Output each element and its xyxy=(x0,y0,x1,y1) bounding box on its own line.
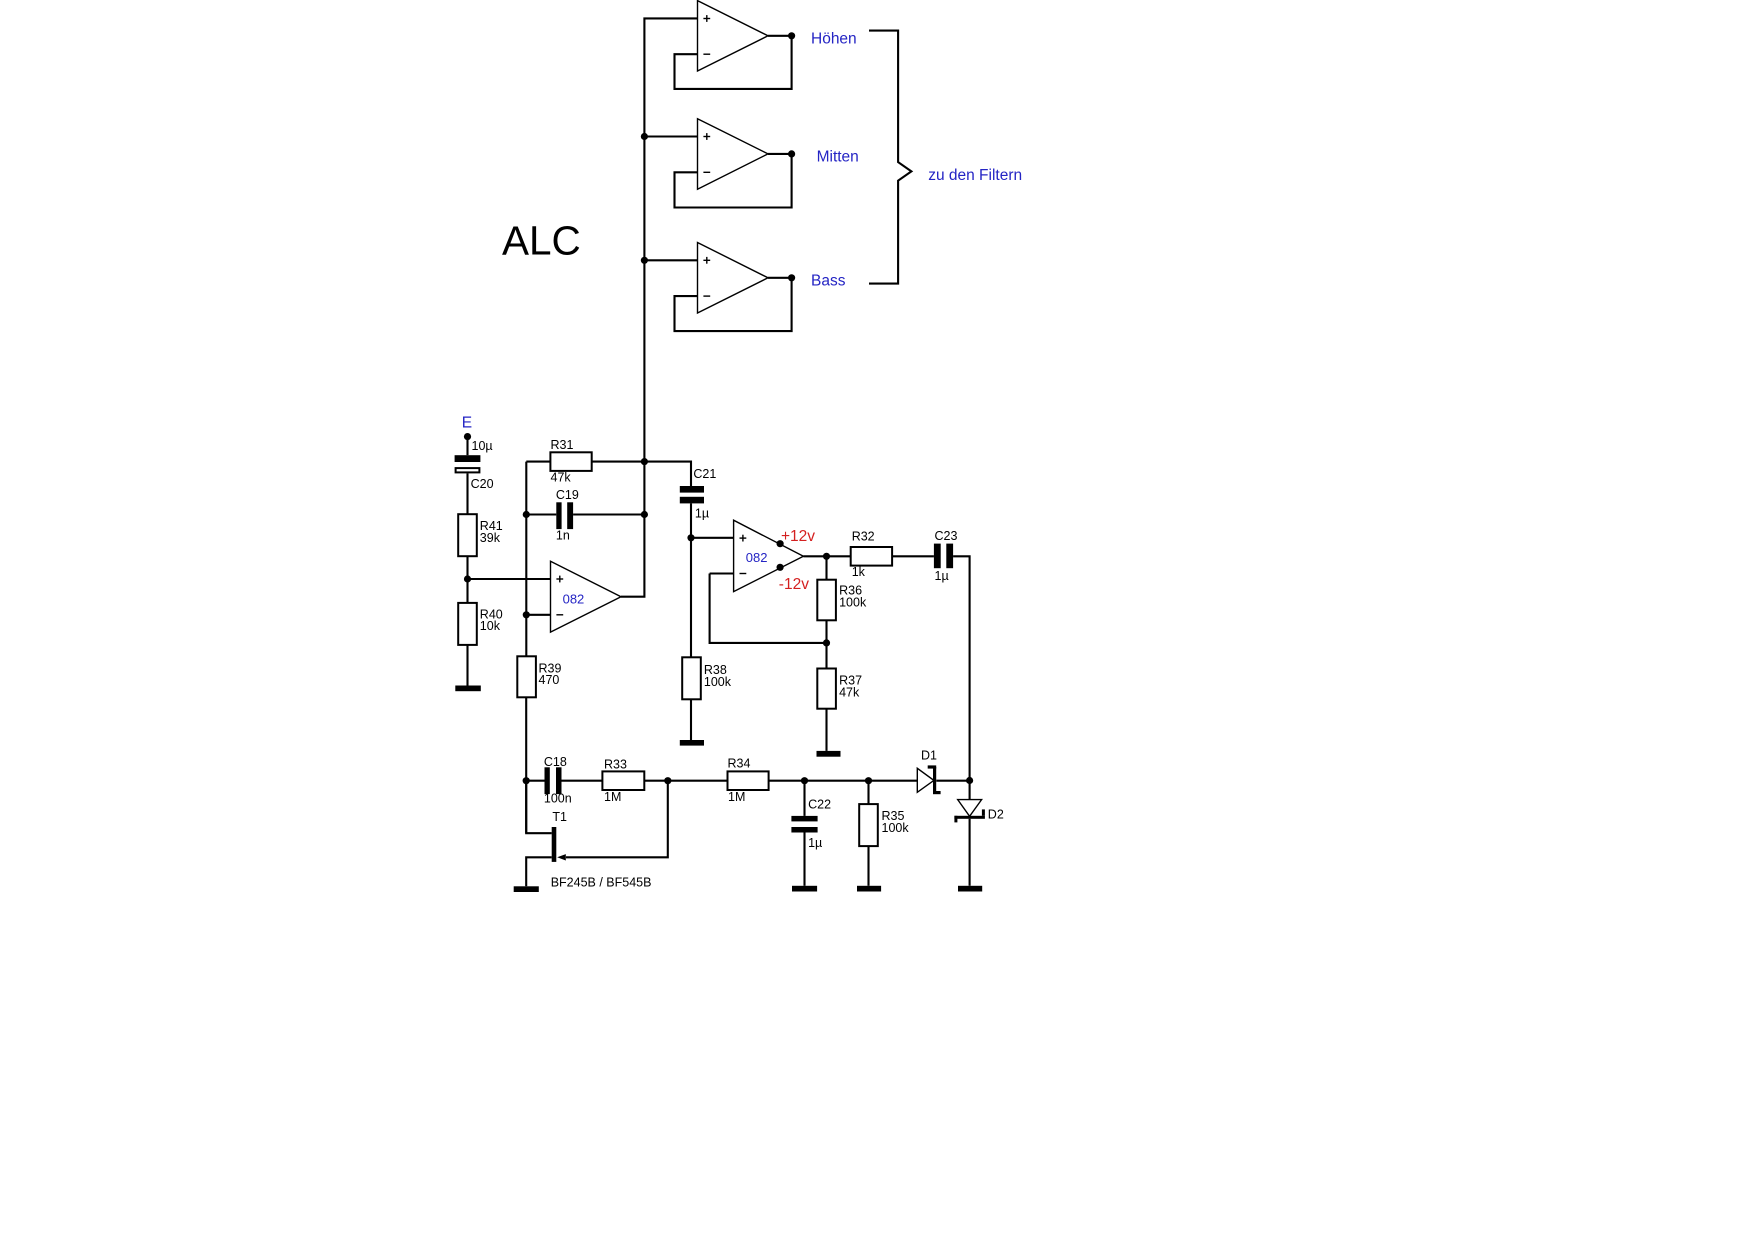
op-amp U4 (082 rectifier stage) xyxy=(734,520,804,591)
node: junction bus/R31/C21 xyxy=(641,458,648,465)
node: Hoehen output junction xyxy=(788,32,795,39)
node: junction on bus at Mitten tap xyxy=(641,133,648,140)
wire: C20 to R41 xyxy=(466,473,468,514)
svg-text:D2: D2 xyxy=(988,807,1004,821)
node: junction C22 xyxy=(801,777,808,784)
brace: outputs to filters xyxy=(869,31,911,284)
wire: U4 output xyxy=(803,555,826,557)
svg-text:R34: R34 xyxy=(728,757,751,771)
svg-text:C18: C18 xyxy=(544,755,567,769)
svg-text:1µ: 1µ xyxy=(808,836,822,850)
wire: C21 to U4 +input xyxy=(690,503,692,537)
wire: R33 to gate node xyxy=(644,780,668,782)
svg-text:Mitten: Mitten xyxy=(817,149,859,166)
svg-text:1k: 1k xyxy=(852,565,866,579)
wire: C23 right down to D1/D2 node xyxy=(953,556,970,780)
wire: R35 node down xyxy=(867,781,869,804)
svg-text:ALC: ALC xyxy=(502,218,581,264)
resistor R38 xyxy=(682,657,701,699)
resistor R37 xyxy=(817,669,836,709)
ground below R37 xyxy=(817,751,841,757)
svg-text:082: 082 xyxy=(563,591,585,606)
svg-text:47k: 47k xyxy=(551,471,572,485)
resistor R39 xyxy=(517,656,536,697)
wire: C18 left xyxy=(526,780,544,782)
node: junction U4 output/R32/R36 xyxy=(823,553,830,560)
svg-text:100n: 100n xyxy=(544,792,572,806)
wire: R35 node to D1 xyxy=(869,780,918,782)
wire: left feedback vertical (R31/C19/U3- /R39) xyxy=(525,462,527,657)
svg-text:1M: 1M xyxy=(728,790,745,804)
wire: R35 to ground xyxy=(867,846,869,886)
capacitor C22 xyxy=(791,816,817,833)
capacitor C18 xyxy=(545,767,562,794)
svg-text:C23: C23 xyxy=(935,529,958,543)
node: Mitten output junction xyxy=(788,150,795,157)
resistor R34 xyxy=(728,771,769,790)
wire: Bass buffer +input tap xyxy=(644,259,697,261)
svg-text:C20: C20 xyxy=(471,477,494,491)
wire: Hoehen feedback loop xyxy=(675,36,792,89)
wire: junction down to R38 xyxy=(690,538,692,658)
wire: junction to U4 +input xyxy=(691,537,734,539)
ground below T1 source xyxy=(514,886,539,892)
node: junction on bus at Bass tap xyxy=(641,257,648,264)
svg-text:Bass: Bass xyxy=(811,272,846,289)
wire: T1 gate to R33/R34 node xyxy=(566,781,668,858)
svg-text:-12v: -12v xyxy=(779,576,809,593)
resistor R36 xyxy=(817,580,836,621)
wire: R32 to C23 xyxy=(892,555,934,557)
resistor R31 xyxy=(550,452,591,471)
svg-text:R33: R33 xyxy=(604,757,627,771)
node: junction C21/U4+/R38 xyxy=(687,534,694,541)
wire: output junction down to R36 xyxy=(825,556,827,579)
wire: T1 drain from C18/R39 node xyxy=(526,781,552,834)
node: junction U3 -input xyxy=(523,611,530,618)
wire: C19 right to bus xyxy=(573,513,644,515)
op-amp buffer (Bass) xyxy=(698,243,769,314)
resistor R33 xyxy=(602,771,644,790)
capacitor C21 xyxy=(680,486,704,503)
transistor T1 (JFET BF245B) xyxy=(552,827,557,862)
capacitor C19 xyxy=(556,502,573,529)
wire: R38 to ground xyxy=(690,699,692,740)
wire: Bass feedback loop xyxy=(675,278,792,331)
svg-text:R31: R31 xyxy=(551,438,574,452)
wire: Hoehen output xyxy=(768,35,792,37)
wire: C22 to ground xyxy=(803,833,805,886)
ground below D2 xyxy=(958,886,982,892)
svg-text:+12v: +12v xyxy=(781,528,815,545)
wire: U3 -input xyxy=(526,614,550,616)
svg-text:C21: C21 xyxy=(693,467,716,481)
wire: junction to R37 xyxy=(825,643,827,669)
svg-text:1M: 1M xyxy=(604,790,621,804)
T1 gate arrow xyxy=(557,854,566,860)
svg-text:47k: 47k xyxy=(839,685,860,699)
wire: R31 right to bus xyxy=(592,461,645,463)
svg-text:1µ: 1µ xyxy=(695,506,709,520)
power pin +12v dot xyxy=(777,540,784,547)
svg-text:D1: D1 xyxy=(921,748,937,762)
wire: C22 node down xyxy=(803,781,805,816)
svg-text:BF245B / BF545B: BF245B / BF545B xyxy=(551,875,652,889)
svg-text:1n: 1n xyxy=(556,529,570,543)
node: Bass output junction xyxy=(788,274,795,281)
wire: D2 to ground xyxy=(969,819,971,886)
diode D2 (Schottky to ground) xyxy=(954,781,985,823)
capacitor C20 (polarized 10u) xyxy=(455,455,481,472)
op-amp U3 (082 input stage) xyxy=(551,561,622,632)
ground below R35 xyxy=(857,886,881,892)
ground below R40 xyxy=(455,686,481,692)
op-amp buffer (Hoehen) xyxy=(698,1,769,71)
wire: U4 feedback to R36/R37 node xyxy=(710,574,827,643)
node: junction R33/R34/T1 gate xyxy=(664,777,671,784)
wire: R39 down to T1 drain xyxy=(525,697,527,833)
wire: T1 source to ground xyxy=(526,857,552,886)
wire: C18 to R33 xyxy=(562,780,603,782)
diode D1 (Schottky) xyxy=(917,765,940,794)
op-amp buffer (Mitten) xyxy=(698,119,769,190)
resistor R41 xyxy=(458,514,477,556)
wire: D1 to D2 node xyxy=(936,780,969,782)
wire: U4 -input xyxy=(710,572,734,574)
resistor R35 xyxy=(859,804,878,846)
svg-text:470: 470 xyxy=(539,673,560,687)
wire: C22 node to R35 node xyxy=(805,780,869,782)
wire: R37 to ground xyxy=(825,709,827,751)
node: junction R35 xyxy=(865,777,872,784)
svg-text:100k: 100k xyxy=(839,595,867,609)
wire: E to C20 xyxy=(466,437,468,456)
node: junction C19 left xyxy=(523,511,530,518)
wire: bus junction to C21 xyxy=(644,462,691,486)
svg-text:10k: 10k xyxy=(480,619,501,633)
svg-text:T1: T1 xyxy=(552,810,567,824)
ground below R38 xyxy=(680,740,704,746)
wire: R41 to R40 xyxy=(466,556,468,603)
wire: gate node to R34 xyxy=(668,780,728,782)
node: junction R41/R40/U3+ xyxy=(464,575,471,582)
capacitor C23 xyxy=(934,544,953,569)
node: junction R36/R37/feedback xyxy=(823,639,830,646)
svg-text:100k: 100k xyxy=(704,675,732,689)
ground below C22 xyxy=(792,886,817,892)
svg-text:C19: C19 xyxy=(556,488,579,502)
svg-text:zu den Filtern: zu den Filtern xyxy=(928,167,1022,184)
svg-text:10µ: 10µ xyxy=(472,439,493,453)
power pin -12v dot xyxy=(777,564,784,571)
wire: R40 to ground xyxy=(466,645,468,686)
svg-text:100k: 100k xyxy=(882,821,910,835)
svg-text:R32: R32 xyxy=(852,529,875,543)
wire: Mitten feedback loop xyxy=(675,154,792,208)
wire: Bass output xyxy=(768,277,792,279)
node: junction D1/D2/C23 xyxy=(966,777,973,784)
wire: junction to U3 +input xyxy=(468,578,551,580)
wire: signal bus from op-amp U3 output up to buffer inputs xyxy=(621,18,698,596)
resistor R40 xyxy=(458,603,477,645)
svg-text:082: 082 xyxy=(746,550,768,565)
wire: R34 to C22 node xyxy=(769,780,805,782)
wire: R31 left xyxy=(526,461,550,463)
node: junction bus/C19 xyxy=(641,511,648,518)
node: junction C18/R39/T1 xyxy=(523,777,530,784)
svg-text:E: E xyxy=(462,414,472,431)
wire: Mitten output xyxy=(768,153,792,155)
svg-text:C22: C22 xyxy=(808,798,831,812)
svg-text:Höhen: Höhen xyxy=(811,30,857,47)
wire: Mitten buffer +input tap xyxy=(644,135,697,137)
svg-text:1µ: 1µ xyxy=(935,569,949,583)
wire: C19 left xyxy=(526,513,556,515)
resistor R32 xyxy=(851,547,892,566)
wire: output junction to R32 xyxy=(827,555,851,557)
wire: R36 to junction xyxy=(825,620,827,643)
svg-text:39k: 39k xyxy=(480,531,501,545)
